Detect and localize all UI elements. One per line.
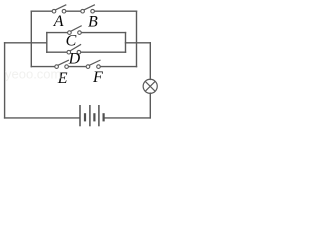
wire between switch A and B — [66, 10, 81, 12]
lamp X1 — [143, 79, 157, 93]
svg-text:A: A — [53, 13, 64, 30]
switch C — [68, 26, 82, 35]
switch E — [55, 60, 69, 68]
wire E F row right segment — [100, 66, 136, 68]
svg-text:F: F — [92, 69, 103, 86]
svg-text:yeoo.com: yeoo.com — [5, 67, 61, 82]
switch F — [86, 60, 100, 68]
wire inner box right edge — [125, 33, 127, 53]
switch D — [67, 44, 81, 54]
wire right vertical below lamp — [149, 93, 151, 118]
switch B — [81, 5, 95, 13]
wire inner box top edge left part — [47, 32, 68, 34]
wire right lead — [126, 42, 151, 44]
wire E F row left segment — [31, 66, 54, 68]
wire bottom rail left of battery — [5, 117, 80, 119]
wire right vertical above lamp — [149, 43, 151, 80]
wire inner box bottom edge left part — [47, 51, 67, 53]
battery B1 — [80, 105, 104, 126]
wire left inner vertical — [30, 11, 32, 66]
svg-text:C: C — [66, 33, 77, 50]
wire inner box left edge — [46, 33, 48, 53]
svg-text:D: D — [68, 51, 81, 68]
wire inner box bottom edge right part — [81, 51, 126, 53]
wire inner box top edge right part — [81, 32, 125, 34]
wire top right segment — [95, 10, 137, 12]
wire right inner vertical — [136, 11, 138, 66]
wire between switch E and F — [69, 66, 87, 68]
wire top left segment — [31, 10, 52, 12]
wire left outer vertical — [4, 43, 6, 118]
switch A — [52, 5, 66, 13]
svg-text:B: B — [88, 13, 98, 30]
wire bottom rail right of battery — [104, 117, 150, 119]
wire left lead — [5, 42, 47, 44]
